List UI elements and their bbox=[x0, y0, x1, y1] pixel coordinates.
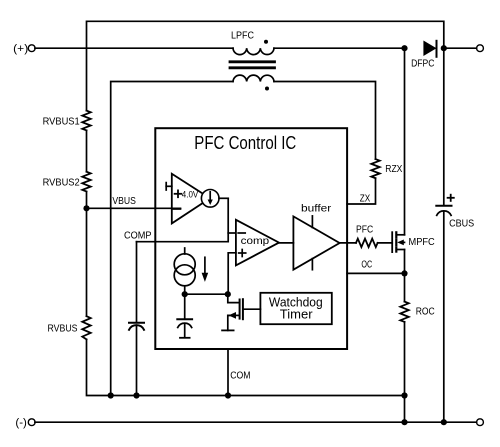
comparator comp bbox=[236, 220, 279, 266]
output terminal bottom right bbox=[477, 419, 484, 426]
resistor RVBUS2 bbox=[82, 172, 90, 192]
comp minus tick bbox=[238, 232, 245, 234]
wire comp plus input bbox=[228, 253, 236, 294]
wire RVBUS1 to RVBUS2 bbox=[86, 130, 88, 171]
node diode cathode junction bbox=[441, 45, 447, 51]
wire COMP pin bbox=[137, 198, 229, 241]
wire bottom rail bbox=[35, 421, 477, 423]
node COM rail COM pin bbox=[225, 392, 231, 398]
node bottom rail x404 bbox=[401, 419, 407, 425]
resistor PFC gate bbox=[356, 239, 378, 247]
svg-text:comp: comp bbox=[241, 236, 270, 247]
comp plus sign bbox=[239, 250, 246, 257]
svg-text:RVBUS: RVBUS bbox=[48, 324, 78, 335]
node COM rail x110 bbox=[108, 392, 114, 398]
wire VBUS bbox=[87, 207, 181, 209]
wire comp out to buffer bbox=[279, 242, 293, 244]
op-amp U1 error amplifier bbox=[172, 174, 210, 224]
node OC junction bbox=[401, 270, 407, 276]
label Watchdog Timer bbox=[269, 294, 323, 321]
node ramp left bbox=[182, 291, 188, 297]
label CBUS plus bbox=[448, 195, 454, 201]
wire PFC pin bbox=[340, 242, 356, 244]
node VBUS junction bbox=[83, 205, 89, 211]
wire RVBUS2 down to RVBUS bbox=[86, 192, 88, 317]
buffer top supply tick bbox=[311, 216, 313, 228]
ground bar Q1 source bbox=[222, 329, 234, 331]
svg-text:ROC: ROC bbox=[416, 307, 435, 318]
current source ramp bbox=[184, 248, 186, 254]
svg-text:LPFC: LPFC bbox=[231, 30, 254, 41]
wire RVBUS to COM rail bbox=[87, 339, 405, 395]
terminal (+) bbox=[28, 45, 35, 52]
wire secondary winding return bbox=[111, 82, 233, 396]
wire ZX pin bbox=[347, 178, 375, 204]
wire top feedback rail bbox=[87, 21, 444, 110]
resistor ROC bbox=[400, 302, 408, 322]
node diode anode junction bbox=[401, 45, 407, 51]
svg-text:DFPC: DFPC bbox=[411, 59, 435, 70]
current source U1 output bbox=[201, 190, 219, 208]
svg-text:VBUS: VBUS bbox=[112, 196, 136, 207]
wire ramp node bbox=[185, 293, 229, 295]
output terminal top right bbox=[477, 45, 484, 52]
svg-text:ZX: ZX bbox=[360, 193, 370, 204]
node COM rail x136 bbox=[133, 392, 139, 398]
svg-text:(+): (+) bbox=[13, 43, 28, 55]
wire secondary to RZX bbox=[274, 82, 376, 160]
transistor Q1 watchdog reset bbox=[228, 294, 240, 302]
node bottom rail x443 bbox=[441, 419, 447, 425]
resistor RVBUS1 bbox=[82, 111, 90, 131]
terminal (-) bbox=[28, 419, 35, 426]
wire to comp inverting input bbox=[228, 232, 235, 234]
wire (+) rail left bbox=[35, 47, 233, 49]
wire gate resistor to MPFC bbox=[378, 242, 393, 244]
inductor LPFC secondary winding bbox=[233, 75, 274, 81]
LPFC core bars bbox=[230, 62, 275, 68]
svg-text:MPFC: MPFC bbox=[409, 237, 436, 248]
resistor RVBUS bbox=[82, 316, 90, 339]
transistor MPFC bbox=[391, 232, 393, 252]
resistor RZX bbox=[371, 159, 379, 178]
svg-text:COMP: COMP bbox=[124, 231, 152, 242]
wire primary to diode bbox=[274, 47, 405, 49]
buffer amplifier bbox=[293, 216, 339, 269]
capacitor COMP external bbox=[136, 242, 138, 323]
wire MPFC drain bbox=[404, 48, 406, 235]
inductor LPFC primary winding bbox=[233, 48, 274, 54]
wire COM pin bbox=[227, 349, 229, 396]
svg-text:PFC: PFC bbox=[356, 224, 374, 235]
label +4.0V bbox=[175, 190, 199, 201]
diode DFPC bbox=[423, 41, 436, 57]
svg-text:PFC Control IC: PFC Control IC bbox=[194, 133, 296, 153]
LPFC primary phase dot bbox=[264, 40, 268, 44]
wire U1 out to comp bbox=[219, 197, 228, 199]
capacitor CBUS bbox=[443, 48, 445, 206]
svg-text:COM: COM bbox=[230, 371, 250, 382]
svg-text:4.0V: 4.0V bbox=[182, 190, 199, 201]
wire MPFC source to OC bbox=[404, 250, 406, 302]
U1 reference input tick bbox=[165, 183, 167, 190]
node COM rail right end bbox=[401, 392, 407, 398]
current direction arrow bbox=[204, 257, 206, 273]
buffer bottom supply tick bbox=[311, 259, 313, 270]
svg-text:Timer: Timer bbox=[280, 307, 313, 322]
wire diode to output terminal bbox=[444, 47, 477, 49]
svg-text:RVBUS2: RVBUS2 bbox=[43, 177, 80, 188]
wire OC pin bbox=[347, 272, 404, 274]
wire ROC to rails bbox=[404, 322, 406, 422]
watchdog timer box bbox=[260, 293, 331, 324]
svg-text:RZX: RZX bbox=[385, 164, 402, 175]
svg-text:OC: OC bbox=[361, 260, 372, 271]
IC box bbox=[155, 128, 347, 349]
capacitor ramp internal bbox=[184, 294, 186, 319]
LPFC secondary phase dot bbox=[265, 87, 269, 91]
svg-text:buffer: buffer bbox=[301, 204, 332, 215]
node ramp right bbox=[225, 291, 231, 297]
wire Q1 gate to watchdog bbox=[243, 308, 261, 310]
U1 inverting input tick bbox=[172, 208, 181, 210]
svg-text:CBUS: CBUS bbox=[449, 218, 474, 229]
svg-text:(-): (-) bbox=[15, 417, 27, 429]
svg-text:RVBUS1: RVBUS1 bbox=[43, 117, 80, 128]
